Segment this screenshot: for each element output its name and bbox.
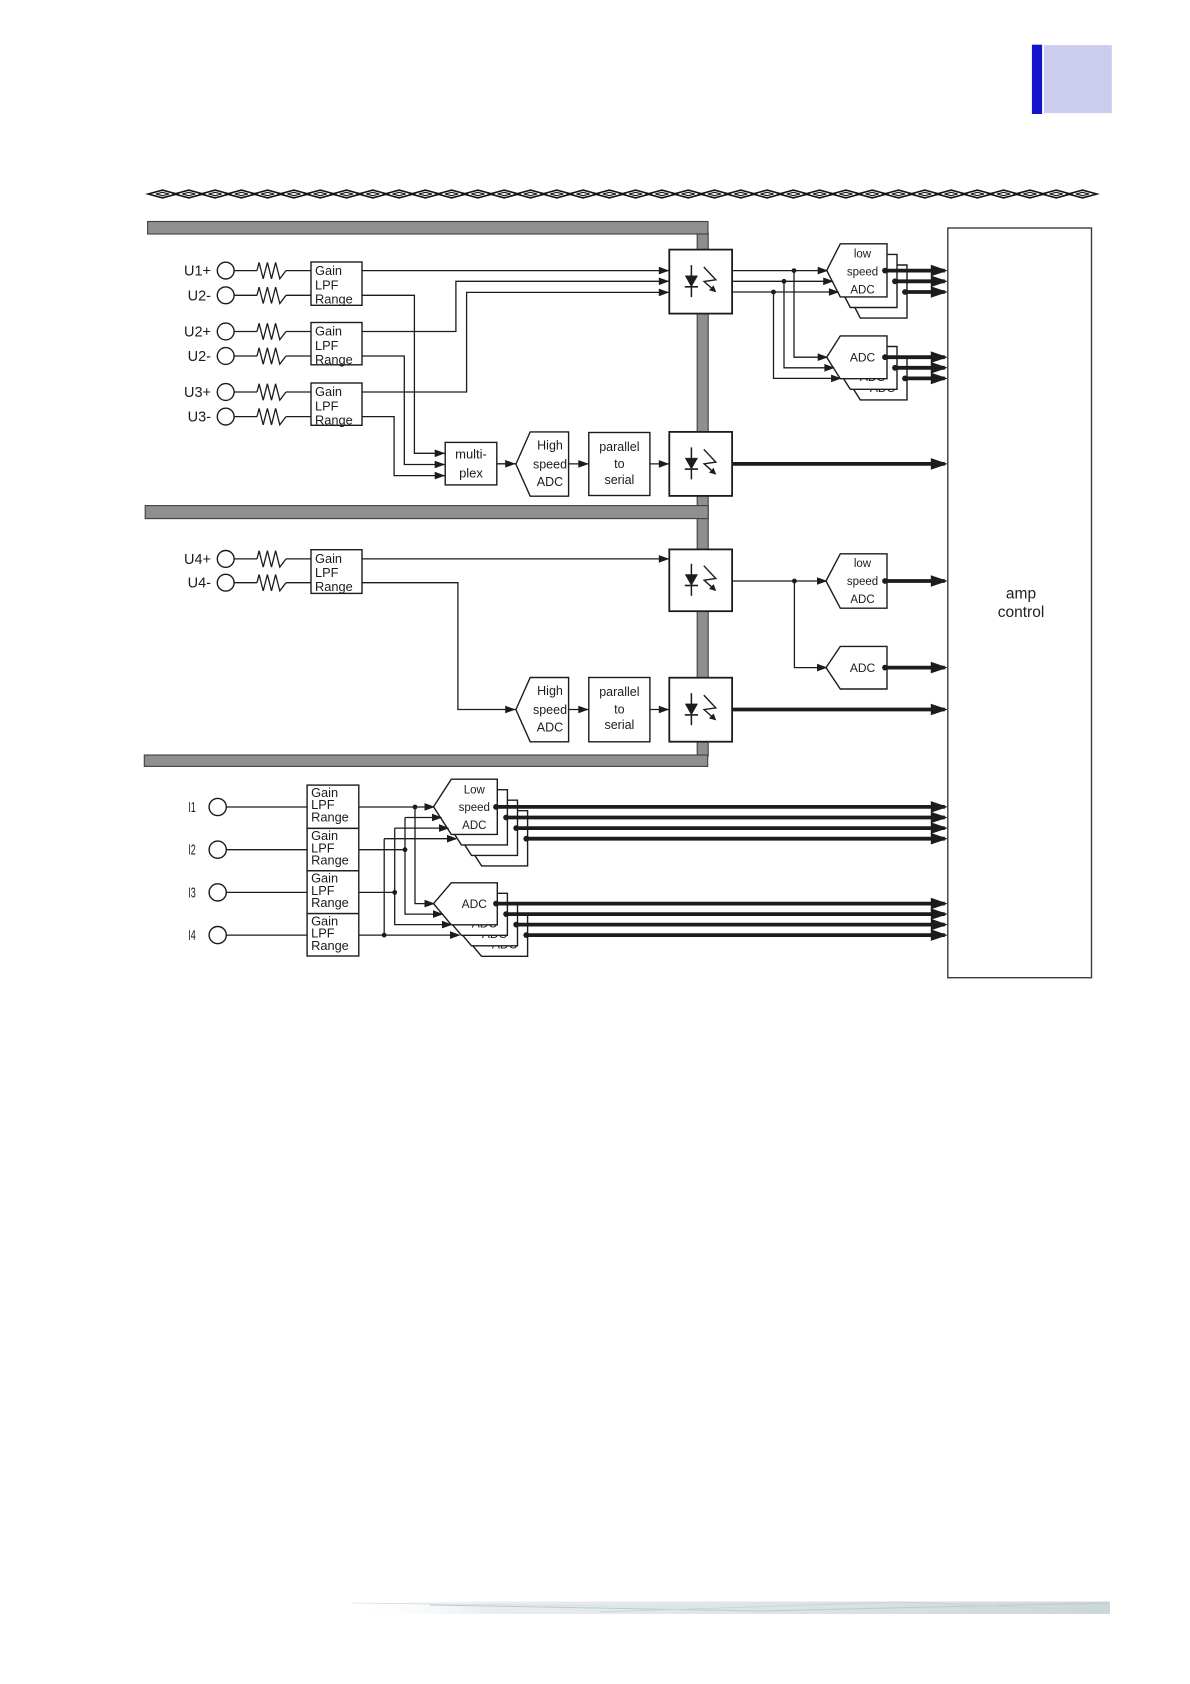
arrow into ADC I1 (425, 900, 436, 908)
wire G2 out U2+ to isolator PC1 input 2 (362, 281, 669, 331)
svg-text:U2-: U2- (188, 288, 212, 304)
wire I2 to gain block (226, 849, 307, 851)
Low speed ADC I stack hidden layer 3 (454, 800, 518, 855)
ADC stack (U1-U3) hidden layer 3 (847, 357, 907, 400)
wire U3- to resistor (234, 416, 257, 418)
arrow into low speed ADC U4 (817, 577, 828, 585)
ADC U4 (826, 646, 887, 689)
svg-text:LPF: LPF (315, 565, 339, 580)
wire node U3 down to ADC stack (774, 292, 841, 378)
wire node I4 up to Low speed ADC I stack (383, 839, 385, 935)
arrow into ADC 1 (818, 353, 829, 361)
input terminal I1 (188, 799, 196, 816)
svg-text:U3+: U3+ (184, 385, 211, 401)
svg-text:Range: Range (315, 352, 353, 367)
wire GI4 right to ADC I stack (359, 934, 459, 936)
wire I1 to gain block (226, 806, 307, 808)
ADC I stack hidden layer 4 (464, 914, 528, 956)
gain/LPF/range block I2 (GI2) (307, 828, 359, 870)
wire resistor to gain block (286, 391, 311, 393)
gain/LPF/range block U3 (G3) (311, 383, 362, 425)
bus ADC out 3 to amp control (902, 376, 908, 382)
wire G3 out U3- to multiplexer input 3 (362, 417, 445, 476)
bus ADC out 2 to amp control (892, 365, 898, 371)
svg-text:U2-: U2- (188, 349, 212, 365)
wire resistor to gain block (286, 355, 311, 357)
resistor RU3+ (257, 384, 286, 400)
resistor RU4- (257, 575, 286, 591)
wire multiplexer to high speed ADC A1 (497, 463, 516, 465)
wire G3 out U3+ to isolator PC1 input 3 (362, 292, 669, 392)
svg-text:LPF: LPF (315, 399, 339, 414)
wire U2+ to resistor (234, 331, 257, 333)
wire node I3 down to ADC I stack (395, 892, 451, 924)
wire node U2 down to ADC stack (784, 281, 833, 368)
svg-text:plex: plex (459, 466, 483, 481)
wire PC3 to low speed ADC U4 (732, 580, 826, 582)
bus ADC I out 4 to amp control (523, 932, 529, 938)
junction node U1 (792, 268, 797, 273)
Low speed ADC I stack hidden layer 4 (464, 811, 528, 866)
gain/LPF/range block I3 (GI3) (307, 871, 359, 914)
wire A1 to parallel-serial converter P1 (569, 463, 589, 465)
resistor RU2+ (257, 323, 286, 339)
svg-text:Range: Range (311, 938, 349, 953)
svg-text:ADC: ADC (850, 594, 874, 606)
amp control block (948, 228, 1092, 978)
wire node I1 down to ADC I stack (415, 807, 434, 904)
junction node U3 (771, 290, 776, 295)
gain/LPF/range block U4 (G4) (311, 550, 362, 594)
arrow into Low speed ADC I4 (447, 835, 458, 843)
junction node I1 (413, 805, 418, 810)
svg-text:U4-: U4- (188, 576, 212, 592)
bus ADC I out 1 to amp control (493, 901, 499, 907)
low speed ADC U (front) (827, 244, 887, 297)
junction node U2 (782, 279, 787, 284)
svg-text:ADC: ADC (537, 720, 563, 734)
gain/LPF/range block U1 (G1) (311, 262, 362, 305)
svg-text:Range: Range (311, 895, 349, 910)
bus low speed ADC out 3 to amp control (902, 289, 908, 295)
wire GI2 right (359, 849, 405, 851)
high speed ADC A2 (516, 678, 569, 742)
opto isolator PC1 (669, 250, 732, 314)
svg-text:multi-: multi- (455, 447, 487, 462)
svg-text:ADC: ADC (850, 661, 876, 675)
svg-text:High: High (537, 439, 563, 453)
svg-text:Range: Range (311, 853, 349, 868)
arrow into ADC I3 (442, 921, 453, 929)
wire I3 to gain block (226, 891, 307, 893)
isolation barrier top bar (148, 222, 708, 235)
junction node I3 (392, 890, 397, 895)
wire G1 out U1+ to isolator PC1 input 1 (362, 270, 669, 272)
svg-text:ADC: ADC (850, 350, 876, 364)
svg-text:speed: speed (533, 458, 567, 472)
svg-text:U3-: U3- (188, 410, 212, 426)
arrow into Low speed ADC I3 (439, 824, 450, 832)
wire node U1 down to ADC stack (794, 271, 827, 358)
wire resistor to gain block (286, 270, 311, 272)
wire U1+ to resistor (234, 270, 257, 272)
svg-text:serial: serial (604, 473, 634, 487)
wire G2 out U2- to multiplexer input 2 (362, 356, 445, 465)
Low speed ADC I (front) (434, 779, 498, 834)
bus low speed ADC out 2 to amp control (892, 278, 898, 284)
wire resistor to gain block (286, 582, 311, 584)
ADC U (front) (827, 336, 887, 379)
arrow into low speed ADC 2 (823, 278, 834, 286)
parallel to serial block P1 (589, 433, 650, 496)
bus Low speed ADC I out 4 to amp control (523, 836, 529, 842)
wire U3+ to resistor (234, 391, 257, 393)
junction node U4 (792, 579, 797, 584)
opto isolator PC2 (669, 432, 732, 496)
wire resistor to gain block (286, 416, 311, 418)
svg-text:Range: Range (315, 579, 353, 594)
svg-text:Gain: Gain (315, 324, 342, 339)
svg-text:speed: speed (847, 266, 878, 278)
ADC I (front) (434, 883, 498, 925)
resistor RU2- (257, 348, 286, 364)
bus PC2 to amp control (732, 462, 945, 466)
resistor RU4+ (257, 551, 286, 567)
arrow into ADC 2 (824, 364, 835, 372)
svg-text:LPF: LPF (315, 338, 339, 353)
wire GI1 to Low speed ADC I stack (359, 806, 434, 808)
wire resistor to gain block (286, 294, 311, 296)
bus low speed ADC U4 to amp control (882, 578, 888, 584)
wire node U4 down to ADC U4 (794, 581, 826, 668)
high speed ADC A1 (516, 432, 569, 496)
wire node I3 up to Low speed ADC I stack (394, 828, 396, 892)
arrow into low speed ADC 3 (829, 288, 840, 296)
wire I4 to gain block (226, 934, 307, 936)
wire A2 to parallel-serial converter P2 (569, 709, 589, 711)
input terminal I3 (188, 884, 196, 901)
arrow into ADC I2 (433, 910, 444, 918)
wire G1 out U1- to multiplexer input 1 (362, 295, 445, 453)
arrow into Low speed ADC I1 (425, 803, 436, 811)
svg-text:speed: speed (847, 576, 878, 588)
header dark blue bar (1032, 45, 1042, 114)
svg-text:speed: speed (533, 703, 567, 717)
junction node I2 (403, 847, 408, 852)
wire PC1 out1 to low speed ADC stack (732, 270, 827, 272)
bus ADC U4 to amp control (882, 665, 888, 671)
wire U4+ to resistor (234, 558, 257, 560)
bus ADC I out 3 to amp control (513, 922, 519, 928)
arrow into ADC U4 (817, 664, 828, 672)
arrow into ADC I4 (450, 931, 461, 939)
ADC I stack hidden layer 2 (444, 893, 508, 935)
bus Low speed ADC I out 3 to amp control (513, 825, 519, 831)
arrow into ADC 3 (831, 375, 842, 383)
wire resistor to gain block (286, 558, 311, 560)
arrow into low speed ADC 1 (818, 267, 829, 275)
gain/LPF/range block I4 (GI4) (307, 914, 359, 956)
parallel to serial block P2 (589, 678, 650, 742)
svg-text:Range: Range (315, 413, 353, 428)
svg-text:Gain: Gain (315, 551, 342, 566)
wire U4- to resistor (234, 582, 257, 584)
resistor RU2- (257, 287, 286, 303)
svg-text:Range: Range (315, 292, 353, 307)
resistor RU3- (257, 408, 286, 424)
svg-text:Range: Range (311, 809, 349, 824)
svg-text:ADC: ADC (537, 475, 563, 489)
junction node I4 (382, 933, 387, 938)
svg-text:I4: I4 (188, 927, 196, 944)
input terminal I2 (188, 841, 196, 858)
bus low speed ADC out 1 to amp control (882, 268, 888, 274)
wire node I2 up to Low speed ADC I stack (404, 818, 406, 850)
isolation barrier middle bar (145, 506, 708, 519)
svg-text:High: High (537, 684, 563, 698)
low speed ADC U4 (826, 554, 887, 608)
isolation barrier vertical bar (697, 233, 708, 756)
wire P1 to isolator PC2 (650, 463, 669, 465)
wire P2 to isolator PC4 (650, 709, 669, 711)
wire PC1 out3 (732, 291, 838, 293)
wire U2- to resistor (234, 355, 257, 357)
wire GI3 right (359, 891, 395, 893)
ADC stack hidden layer 2 (837, 347, 897, 390)
gain/LPF/range block U2 (G2) (311, 323, 362, 365)
svg-text:ADC: ADC (462, 897, 488, 911)
header lavender square (1044, 45, 1112, 113)
wire resistor to gain block (286, 331, 311, 333)
wire U2- to resistor (234, 294, 257, 296)
svg-text:parallel: parallel (599, 685, 639, 699)
svg-text:parallel: parallel (599, 440, 639, 454)
decorative diamond chain rule (148, 190, 1097, 198)
svg-text:I1: I1 (188, 799, 196, 816)
isolation barrier bottom bar (144, 755, 707, 766)
opto isolator PC3 (669, 549, 732, 611)
bus ADC I out 2 to amp control (503, 911, 509, 917)
svg-text:Gain: Gain (315, 263, 342, 278)
svg-text:amp: amp (1006, 586, 1036, 603)
wire node I2 down to ADC I stack (405, 850, 442, 914)
input terminal I4 (188, 927, 196, 944)
ADC I stack hidden layer 3 (454, 904, 518, 946)
svg-text:I3: I3 (188, 884, 196, 901)
arrow into Low speed ADC I2 (432, 814, 443, 822)
resistor RU1+ (257, 262, 286, 278)
svg-text:low: low (854, 558, 872, 570)
bus Low speed ADC I out 1 to amp control (493, 804, 499, 810)
wire G4 out U4+ to isolator PC3 (362, 558, 669, 560)
svg-text:to: to (614, 702, 624, 716)
svg-text:Gain: Gain (315, 384, 342, 399)
bus ADC out 1 to amp control (882, 354, 888, 360)
gain/LPF/range block I1 (GI1) (307, 785, 359, 828)
opto isolator PC4 (669, 678, 732, 742)
low speed ADC stack (U1-U3) hidden layer 3 (847, 265, 907, 318)
svg-text:control: control (998, 604, 1045, 621)
svg-text:low: low (854, 248, 872, 260)
bus Low speed ADC I out 2 to amp control (503, 815, 509, 821)
svg-text:Low: Low (464, 784, 486, 796)
svg-text:LPF: LPF (315, 278, 339, 293)
low speed ADC stack hidden layer 2 (837, 254, 897, 307)
svg-text:to: to (614, 457, 624, 471)
svg-text:speed: speed (459, 802, 490, 814)
svg-text:I2: I2 (188, 841, 196, 858)
wire G4 out U4- to high speed ADC A2 (362, 583, 516, 710)
bus PC4 to amp control (732, 708, 945, 712)
svg-text:U2+: U2+ (184, 325, 211, 341)
svg-text:U4+: U4+ (184, 552, 211, 568)
svg-text:U1+: U1+ (184, 264, 211, 280)
wire PC1 out2 (732, 280, 832, 282)
svg-text:ADC: ADC (850, 284, 874, 296)
svg-text:ADC: ADC (462, 820, 486, 832)
svg-text:serial: serial (604, 718, 634, 732)
Low speed ADC I stack hidden layer 2 (444, 790, 508, 845)
multiplexer block (445, 442, 497, 485)
